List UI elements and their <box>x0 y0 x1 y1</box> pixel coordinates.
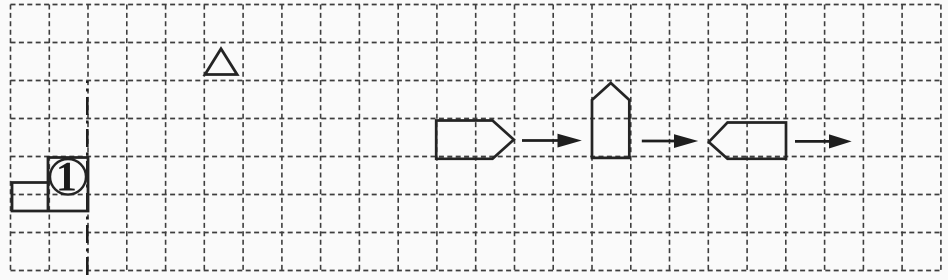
arrow 1 <box>522 134 580 147</box>
shape 1 inner segment <box>47 183 50 212</box>
pentagon pointing left <box>709 123 786 159</box>
pentagon pointing up <box>592 83 629 158</box>
pentagon pointing right <box>436 121 514 159</box>
arrow 2 <box>642 135 697 148</box>
shape 1: L-shaped figure outline <box>12 158 88 212</box>
label digit 1 (Liberation Serif Bold glyph outline) <box>59 163 74 191</box>
label circle <box>50 159 86 195</box>
arrow 3 <box>795 135 850 148</box>
axis of symmetry (dash-dot vertical line) <box>86 81 89 280</box>
triangle <box>205 49 237 75</box>
